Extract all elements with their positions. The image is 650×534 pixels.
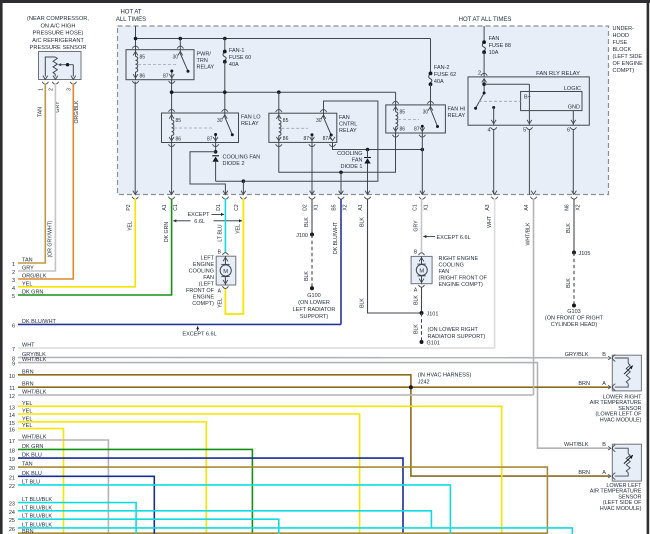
svg-text:C1: C1 <box>413 204 419 211</box>
svg-text:DIODE 1: DIODE 1 <box>340 164 362 170</box>
svg-text:COOLING: COOLING <box>337 151 362 157</box>
svg-text:BLK: BLK <box>360 217 366 227</box>
svg-text:FAN: FAN <box>203 275 214 281</box>
svg-text:D1: D1 <box>216 204 222 211</box>
svg-text:PRESSURE HOSE): PRESSURE HOSE) <box>33 31 84 37</box>
svg-text:1: 1 <box>12 262 15 268</box>
svg-text:2: 2 <box>478 71 481 77</box>
svg-text:G100: G100 <box>307 293 320 299</box>
svg-text:DK GRN: DK GRN <box>164 222 170 242</box>
svg-text:FUSE 60: FUSE 60 <box>229 55 251 61</box>
svg-text:YEL: YEL <box>128 221 134 231</box>
svg-text:B: B <box>602 442 606 448</box>
svg-text:FAN LO: FAN LO <box>241 115 261 121</box>
svg-text:OF ENGINE: OF ENGINE <box>613 61 644 67</box>
svg-text:D2: D2 <box>303 204 309 211</box>
svg-text:RELAY: RELAY <box>241 121 259 127</box>
svg-text:TAN: TAN <box>38 107 44 117</box>
svg-text:ENGINE: ENGINE <box>193 295 214 301</box>
svg-text:30: 30 <box>316 118 322 124</box>
svg-text:RELAY: RELAY <box>197 65 215 71</box>
svg-text:A: A <box>602 381 606 387</box>
svg-text:COOLING: COOLING <box>189 269 214 275</box>
svg-text:A: A <box>602 470 606 476</box>
svg-text:30: 30 <box>217 118 223 124</box>
svg-text:GND: GND <box>568 105 580 111</box>
svg-text:J101: J101 <box>427 311 439 317</box>
svg-text:10: 10 <box>9 374 15 380</box>
svg-text:10A: 10A <box>489 50 499 56</box>
svg-text:40A: 40A <box>434 79 444 85</box>
svg-text:LEFT: LEFT <box>201 256 215 262</box>
svg-text:B: B <box>602 352 606 358</box>
svg-text:87: 87 <box>163 74 169 80</box>
svg-text:C2: C2 <box>234 204 240 211</box>
svg-text:14: 14 <box>9 413 15 419</box>
svg-text:FUSE: FUSE <box>613 40 628 46</box>
svg-text:24: 24 <box>9 510 15 516</box>
svg-text:LT BLU: LT BLU <box>218 224 224 241</box>
svg-text:A1: A1 <box>162 204 168 210</box>
svg-text:BRN: BRN <box>22 529 34 534</box>
svg-text:BRN: BRN <box>578 381 590 387</box>
svg-text:11: 11 <box>9 386 15 392</box>
svg-text:BLK: BLK <box>414 324 420 334</box>
svg-text:WHT/BLK: WHT/BLK <box>526 222 532 246</box>
svg-text:(IN HVAC HARNESS): (IN HVAC HARNESS) <box>418 372 472 378</box>
svg-text:FUSE 88: FUSE 88 <box>489 43 511 49</box>
svg-text:5: 5 <box>12 294 15 300</box>
svg-text:COMPT): COMPT) <box>613 68 635 74</box>
svg-text:12: 12 <box>9 394 15 400</box>
svg-text:86: 86 <box>283 136 289 142</box>
svg-text:30: 30 <box>172 55 178 61</box>
svg-text:M: M <box>419 269 424 275</box>
svg-text:FUSE 62: FUSE 62 <box>434 72 456 78</box>
svg-text:30: 30 <box>423 110 429 116</box>
svg-text:EXCEPT: EXCEPT <box>187 212 210 218</box>
svg-text:HOOD: HOOD <box>613 33 630 39</box>
svg-text:FAN: FAN <box>489 36 500 42</box>
svg-text:(ON LOWER RIGHT: (ON LOWER RIGHT <box>428 327 479 333</box>
svg-text:3: 3 <box>66 88 72 91</box>
svg-text:A4: A4 <box>524 204 530 210</box>
svg-text:LOGIC: LOGIC <box>564 86 581 92</box>
svg-text:(NEAR COMPRESSOR,: (NEAR COMPRESSOR, <box>27 16 89 22</box>
svg-text:COOLING: COOLING <box>439 263 464 269</box>
svg-text:ORG/BLK: ORG/BLK <box>74 100 80 124</box>
svg-text:5: 5 <box>523 128 526 134</box>
svg-text:BLK: BLK <box>304 217 310 227</box>
svg-text:P2: P2 <box>126 204 132 210</box>
svg-text:13: 13 <box>9 405 15 411</box>
svg-text:85: 85 <box>283 118 289 124</box>
svg-text:6.6L: 6.6L <box>194 219 205 225</box>
svg-text:25: 25 <box>9 518 15 524</box>
svg-text:87: 87 <box>414 127 420 133</box>
svg-text:B5: B5 <box>332 204 338 210</box>
svg-text:HVAC MODULE): HVAC MODULE) <box>600 418 642 424</box>
svg-text:X1: X1 <box>424 204 430 210</box>
svg-text:G101: G101 <box>427 340 440 346</box>
svg-text:(ON FRONT OF RIGHT: (ON FRONT OF RIGHT <box>545 316 604 322</box>
svg-text:87: 87 <box>207 136 213 142</box>
svg-text:A3: A3 <box>485 204 491 210</box>
svg-text:EXCEPT 6.6L: EXCEPT 6.6L <box>437 235 471 241</box>
svg-text:(LEFT: (LEFT <box>199 282 215 288</box>
svg-text:J100: J100 <box>296 233 308 239</box>
svg-text:22: 22 <box>9 484 15 490</box>
svg-text:HOT AT ALL TIMES: HOT AT ALL TIMES <box>459 17 512 23</box>
svg-text:GRY: GRY <box>414 220 420 232</box>
svg-text:87: 87 <box>303 136 309 142</box>
svg-text:86: 86 <box>176 136 182 142</box>
svg-text:26: 26 <box>9 527 15 533</box>
svg-text:ON A/C HIGH: ON A/C HIGH <box>40 23 75 29</box>
svg-text:RELAY: RELAY <box>339 128 357 134</box>
svg-text:RADIATOR SUPPORT): RADIATOR SUPPORT) <box>428 334 486 340</box>
svg-text:BLK: BLK <box>360 298 366 308</box>
svg-text:HVAC MODULE): HVAC MODULE) <box>600 506 642 512</box>
svg-text:LEFT RADIATOR: LEFT RADIATOR <box>293 307 336 313</box>
svg-text:N6: N6 <box>565 204 571 211</box>
svg-text:PWR/: PWR/ <box>197 52 212 58</box>
svg-text:M: M <box>223 269 228 275</box>
svg-text:GRY/BLK: GRY/BLK <box>565 352 589 358</box>
svg-text:20: 20 <box>9 466 15 472</box>
svg-text:4: 4 <box>12 286 15 292</box>
svg-text:2: 2 <box>12 270 15 276</box>
svg-text:18: 18 <box>9 448 15 454</box>
svg-text:FAN-1: FAN-1 <box>229 48 245 54</box>
svg-text:J105: J105 <box>579 251 591 257</box>
svg-text:15: 15 <box>9 421 15 427</box>
svg-text:X1: X1 <box>314 204 320 210</box>
svg-text:86: 86 <box>140 74 146 80</box>
svg-text:16: 16 <box>9 428 15 434</box>
svg-text:X2: X2 <box>343 204 349 210</box>
svg-text:6: 6 <box>567 128 570 134</box>
svg-text:87A: 87A <box>323 136 333 142</box>
svg-text:RIGHT ENGINE: RIGHT ENGINE <box>439 256 479 262</box>
svg-text:YEL: YEL <box>218 298 224 308</box>
svg-text:FAN: FAN <box>339 115 350 121</box>
svg-text:86: 86 <box>400 127 406 133</box>
svg-text:EXCEPT 6.6L: EXCEPT 6.6L <box>182 332 216 338</box>
svg-text:7: 7 <box>12 347 15 353</box>
svg-text:A1: A1 <box>358 204 364 210</box>
svg-text:1: 1 <box>38 88 44 91</box>
svg-text:CYLINDER HEAD): CYLINDER HEAD) <box>551 322 598 328</box>
svg-text:SUPPORT): SUPPORT) <box>300 314 328 320</box>
svg-text:85: 85 <box>176 118 182 124</box>
svg-text:WHT: WHT <box>487 215 493 228</box>
svg-text:(OR GRY/WHT): (OR GRY/WHT) <box>48 220 54 257</box>
svg-text:3: 3 <box>12 278 15 284</box>
svg-text:2: 2 <box>48 88 54 91</box>
svg-text:BLK: BLK <box>566 223 572 233</box>
svg-text:TRN: TRN <box>197 58 208 64</box>
svg-text:PRESSURE SENSOR: PRESSURE SENSOR <box>30 45 87 51</box>
svg-text:BLOCK: BLOCK <box>613 47 632 53</box>
svg-text:DIODE 2: DIODE 2 <box>223 161 245 167</box>
svg-text:WHT/BLK: WHT/BLK <box>564 442 589 448</box>
svg-text:19: 19 <box>9 457 15 463</box>
svg-text:G103: G103 <box>567 309 580 315</box>
svg-text:FAN HI: FAN HI <box>448 107 466 113</box>
svg-text:BRN: BRN <box>578 470 590 476</box>
svg-text:X2: X2 <box>576 204 582 210</box>
svg-text:(RIGHT FRONT OF: (RIGHT FRONT OF <box>439 276 488 282</box>
svg-text:C1: C1 <box>173 204 179 211</box>
svg-text:ENGINE COMPT): ENGINE COMPT) <box>439 282 483 288</box>
svg-text:DK BLU/WHT: DK BLU/WHT <box>333 221 339 254</box>
svg-text:J242: J242 <box>418 379 430 385</box>
svg-text:HOT AT: HOT AT <box>120 10 141 16</box>
svg-text:RELAY: RELAY <box>448 113 466 119</box>
svg-text:(LEFT SIDE: (LEFT SIDE <box>613 54 643 60</box>
svg-text:A/C REFRIGERANT: A/C REFRIGERANT <box>32 38 84 44</box>
svg-text:BLK: BLK <box>304 271 310 281</box>
svg-text:4: 4 <box>487 128 490 134</box>
svg-text:ENGINE: ENGINE <box>193 262 214 268</box>
svg-text:UNDER-: UNDER- <box>613 26 635 32</box>
svg-text:FRONT OF: FRONT OF <box>186 288 215 294</box>
svg-text:FAN: FAN <box>352 158 363 164</box>
svg-text:CNTRL: CNTRL <box>339 121 357 127</box>
svg-text:COMPT): COMPT) <box>192 301 214 307</box>
svg-text:85: 85 <box>140 55 146 61</box>
svg-text:9: 9 <box>12 362 15 368</box>
svg-text:COOLING FAN: COOLING FAN <box>223 154 261 160</box>
svg-text:40A: 40A <box>229 62 239 68</box>
svg-text:FAN RLY RELAY: FAN RLY RELAY <box>536 71 580 77</box>
svg-text:85: 85 <box>400 110 406 116</box>
svg-text:(ON LOWER: (ON LOWER <box>298 300 330 306</box>
svg-text:21: 21 <box>9 475 15 481</box>
svg-text:BLK: BLK <box>566 278 572 288</box>
svg-text:FAN-2: FAN-2 <box>434 65 450 71</box>
svg-text:FAN: FAN <box>439 269 450 275</box>
svg-text:17: 17 <box>9 439 15 445</box>
svg-text:ALL TIMES: ALL TIMES <box>116 17 146 23</box>
svg-text:6: 6 <box>12 323 15 329</box>
svg-text:YEL: YEL <box>236 224 242 234</box>
svg-text:BLK: BLK <box>414 295 420 305</box>
svg-text:23: 23 <box>9 502 15 508</box>
